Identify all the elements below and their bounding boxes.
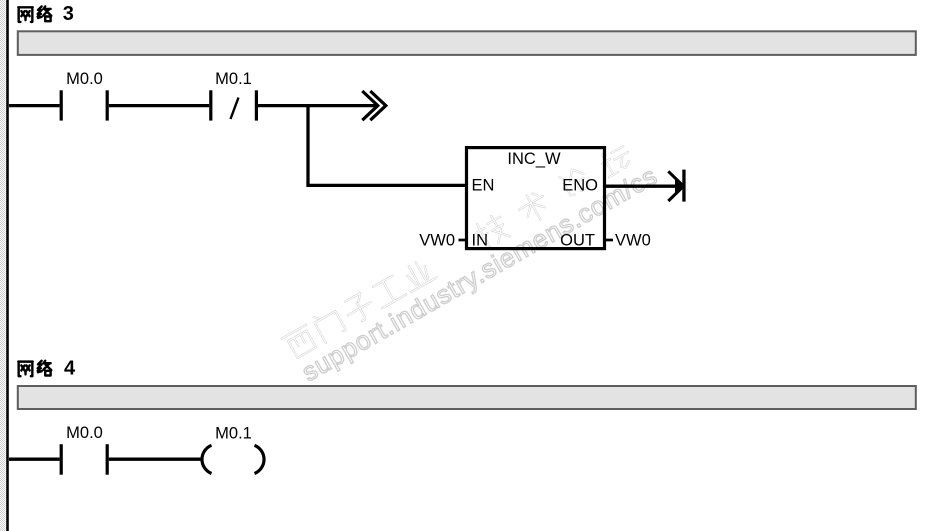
svg-text:INC_W: INC_W (507, 150, 561, 168)
svg-text:M0.0: M0.0 (66, 424, 103, 442)
network 3 title 网络 3 (18, 6, 51, 21)
window edge hatch strip (0, 0, 6, 531)
svg-text:IN: IN (472, 232, 489, 250)
wire: rail to contact M0.0 (net 4) (9, 458, 60, 461)
open branch chevron >> (362, 91, 386, 120)
network 4 comment bar (18, 386, 916, 409)
svg-text:OUT: OUT (560, 232, 595, 250)
svg-text:3: 3 (63, 3, 74, 25)
svg-text:VW0: VW0 (419, 232, 455, 250)
pin stub IN (459, 239, 467, 242)
network 3 comment bar (18, 31, 916, 55)
contact M0.0 (net 4) (61, 444, 107, 475)
wire: rail to contact M0.0 (9, 104, 60, 107)
wire: M0.0 to coil (109, 458, 201, 461)
svg-text:M0.1: M0.1 (215, 70, 252, 88)
box U1 INC_W (467, 148, 605, 249)
network 4 title 网络 4 (18, 361, 51, 376)
wire: branch down from junction (308, 104, 466, 185)
svg-text:M0.0: M0.0 (66, 70, 103, 88)
watermark: 西门子工业 技术论坛 / support.industry.siemens.com/cs (281, 135, 663, 388)
svg-text:ENO: ENO (562, 177, 598, 195)
pin stub OUT (605, 239, 613, 242)
contact M0.0 (normally open) (61, 90, 107, 120)
coil M0.1 (202, 445, 264, 473)
svg-text:4: 4 (64, 358, 76, 380)
open line end arrow (668, 170, 685, 202)
contact M0.1 (normally closed) (211, 90, 257, 120)
svg-text:VW0: VW0 (615, 232, 651, 250)
wire: ENO output (606, 185, 677, 188)
left power rail (6, 0, 9, 531)
svg-text:M0.1: M0.1 (215, 425, 252, 443)
wire: M0.1 to open branch arrow (258, 104, 376, 107)
wire: M0.0 to M0.1 (109, 104, 209, 107)
svg-text:EN: EN (472, 177, 495, 195)
